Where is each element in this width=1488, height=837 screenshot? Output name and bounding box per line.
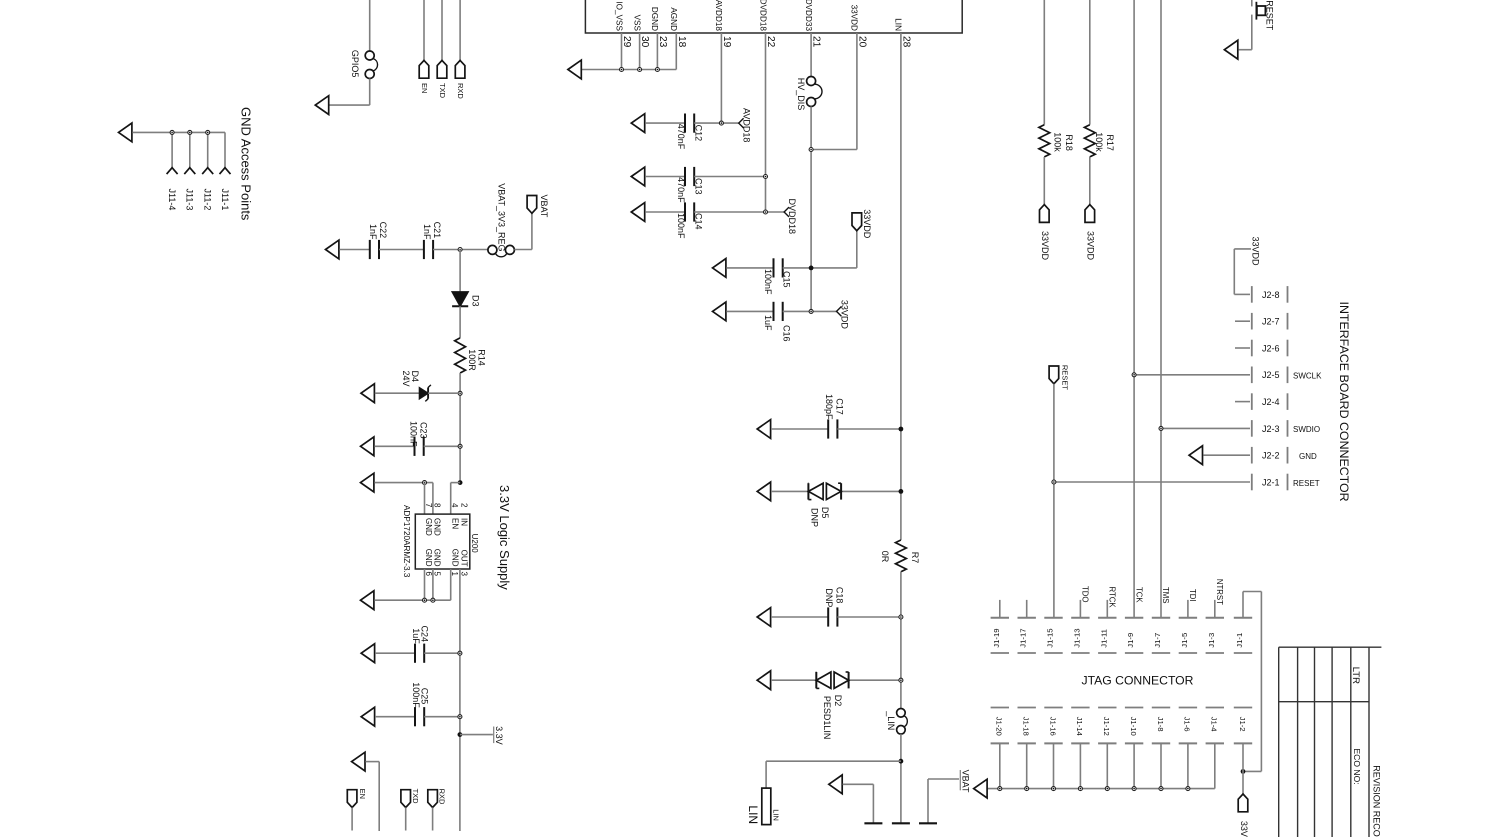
svg-text:GND: GND — [450, 549, 459, 567]
svg-text:J1-4: J1-4 — [1210, 717, 1219, 733]
svg-text:J11-2: J11-2 — [202, 189, 212, 211]
svg-text:33VDD: 33VDD — [1086, 231, 1096, 261]
svg-text:J1-2: J1-2 — [1238, 717, 1247, 732]
svg-text:D5: D5 — [820, 507, 830, 519]
svg-text:J1-19: J1-19 — [992, 628, 1001, 647]
svg-text:J1-17: J1-17 — [1019, 628, 1028, 647]
svg-text:23: 23 — [657, 36, 668, 48]
svg-text:2: 2 — [459, 503, 468, 508]
svg-text:1uF: 1uF — [763, 315, 773, 331]
svg-text:C15: C15 — [782, 271, 792, 288]
svg-text:VBAT_3V3_REG: VBAT_3V3_REG — [496, 183, 506, 251]
svg-text:20: 20 — [856, 36, 867, 48]
svg-text:33VDD: 33VDD — [1040, 231, 1050, 261]
svg-text:TXD: TXD — [411, 789, 420, 805]
svg-text:19: 19 — [721, 36, 732, 48]
svg-text:LIN: LIN — [746, 805, 760, 824]
svg-text:C21: C21 — [432, 222, 442, 239]
svg-text:J1-5: J1-5 — [1180, 633, 1189, 648]
svg-text:D2: D2 — [833, 695, 843, 707]
svg-text:100nF: 100nF — [676, 213, 686, 239]
svg-text:J1-12: J1-12 — [1102, 717, 1111, 736]
svg-text:470nF: 470nF — [676, 124, 686, 150]
svg-text:100k: 100k — [1052, 132, 1062, 152]
svg-text:D3: D3 — [470, 295, 480, 307]
svg-text:J1-11: J1-11 — [1099, 629, 1108, 648]
svg-text:DVDD33: DVDD33 — [804, 0, 813, 31]
svg-text:4: 4 — [450, 503, 459, 508]
svg-text:J11-4: J11-4 — [167, 189, 177, 211]
svg-text:18: 18 — [676, 36, 687, 48]
svg-text:30: 30 — [639, 36, 650, 48]
svg-text:C12: C12 — [693, 125, 703, 142]
svg-text:33VDD: 33VDD — [1239, 821, 1249, 837]
svg-text:J1-15: J1-15 — [1046, 628, 1055, 647]
svg-text:J2-7: J2-7 — [1262, 317, 1280, 327]
svg-text:GND: GND — [424, 518, 433, 536]
svg-text:C25: C25 — [420, 688, 430, 705]
svg-text:PESD1LIN: PESD1LIN — [822, 696, 832, 740]
svg-text:R7: R7 — [910, 552, 920, 564]
svg-text:J1-7: J1-7 — [1153, 633, 1162, 648]
svg-text:RXD: RXD — [438, 789, 447, 805]
svg-text:J1-9: J1-9 — [1126, 633, 1135, 648]
svg-text:TDI: TDI — [1188, 589, 1197, 602]
svg-text:8: 8 — [432, 503, 441, 508]
svg-text:22: 22 — [765, 36, 776, 48]
svg-text:_LIN: _LIN — [886, 710, 896, 730]
svg-text:TXD: TXD — [438, 83, 447, 99]
svg-text:100R: 100R — [467, 349, 477, 371]
svg-text:C18: C18 — [835, 587, 845, 604]
svg-text:RESET: RESET — [1293, 479, 1320, 488]
svg-text:J2-3: J2-3 — [1262, 424, 1280, 434]
svg-text:7: 7 — [424, 503, 433, 508]
svg-text:VBAT: VBAT — [961, 770, 971, 793]
svg-text:C13: C13 — [693, 178, 703, 195]
svg-text:AGND: AGND — [669, 7, 678, 31]
svg-text:DNP: DNP — [809, 508, 819, 527]
svg-text:R18: R18 — [1064, 134, 1074, 151]
svg-text:IN: IN — [460, 518, 469, 526]
svg-text:33VDD: 33VDD — [1251, 237, 1261, 267]
svg-text:J2-8: J2-8 — [1262, 290, 1280, 300]
svg-text:21: 21 — [811, 36, 822, 48]
svg-text:AVDD18: AVDD18 — [742, 108, 752, 142]
svg-text:C16: C16 — [782, 325, 792, 342]
svg-text:100k: 100k — [1094, 132, 1104, 152]
svg-text:DNP: DNP — [824, 588, 834, 607]
svg-text:R14: R14 — [476, 349, 486, 366]
svg-text:EN: EN — [358, 789, 367, 799]
svg-text:100nF: 100nF — [409, 421, 419, 447]
svg-text:VBAT: VBAT — [539, 195, 549, 218]
svg-text:RESET: RESET — [1061, 365, 1070, 390]
svg-text:TMS: TMS — [1161, 587, 1170, 603]
svg-text:GND: GND — [1299, 452, 1317, 461]
svg-text:J2-5: J2-5 — [1262, 370, 1280, 380]
svg-text:33VDD: 33VDD — [840, 300, 850, 330]
svg-text:100nF: 100nF — [411, 682, 421, 708]
svg-text:RESET: RESET — [1265, 0, 1275, 31]
svg-text:J11-3: J11-3 — [185, 189, 195, 211]
svg-text:VSS: VSS — [632, 15, 641, 32]
svg-text:33VDD: 33VDD — [862, 209, 872, 239]
svg-text:EN: EN — [450, 518, 459, 529]
svg-text:SWCLK: SWCLK — [1293, 372, 1322, 381]
svg-text:C24: C24 — [420, 626, 430, 643]
svg-text:3.3V: 3.3V — [494, 726, 504, 745]
svg-text:LTR: LTR — [1350, 667, 1361, 684]
svg-text:NTRST: NTRST — [1215, 579, 1224, 605]
svg-text:100nF: 100nF — [763, 269, 773, 295]
svg-text:J1-1: J1-1 — [1235, 633, 1244, 648]
svg-text:C22: C22 — [378, 222, 388, 239]
svg-text:LIN: LIN — [894, 18, 903, 31]
svg-text:C23: C23 — [419, 422, 429, 439]
svg-text:U200: U200 — [470, 534, 479, 554]
svg-text:INTERFACE BOARD CONNECTOR: INTERFACE BOARD CONNECTOR — [1337, 302, 1351, 502]
svg-text:J1-13: J1-13 — [1072, 628, 1081, 647]
svg-text:C14: C14 — [693, 213, 703, 230]
svg-text:J1-3: J1-3 — [1207, 633, 1216, 648]
svg-text:J1-20: J1-20 — [995, 717, 1004, 736]
svg-text:1uF: 1uF — [411, 628, 421, 644]
svg-text:J1-14: J1-14 — [1075, 717, 1084, 737]
svg-text:DGND: DGND — [650, 7, 659, 31]
svg-text:DVDD18: DVDD18 — [758, 0, 767, 31]
svg-text:GND Access Points: GND Access Points — [239, 107, 254, 221]
svg-text:J1-10: J1-10 — [1129, 717, 1138, 736]
svg-text:D4: D4 — [410, 371, 420, 383]
svg-text:J11-1: J11-1 — [220, 189, 230, 211]
svg-text:J2-6: J2-6 — [1262, 343, 1280, 353]
svg-text:J1-8: J1-8 — [1156, 717, 1165, 732]
svg-text:LIN: LIN — [771, 809, 780, 821]
svg-text:R17: R17 — [1105, 134, 1115, 151]
svg-text:AVDD18: AVDD18 — [714, 0, 723, 31]
svg-text:180pF: 180pF — [824, 394, 834, 420]
svg-text:0R: 0R — [880, 551, 890, 563]
svg-text:J2-2: J2-2 — [1262, 451, 1280, 461]
svg-text:ADP1720ARMZ-3.3: ADP1720ARMZ-3.3 — [402, 505, 411, 578]
svg-text:TDO: TDO — [1081, 586, 1090, 602]
svg-text:33VDD: 33VDD — [850, 5, 859, 31]
svg-text:GPIO5: GPIO5 — [350, 50, 360, 78]
svg-text:C17: C17 — [835, 398, 845, 415]
svg-text:RXD: RXD — [456, 83, 465, 99]
svg-text:REVISION RECORD: REVISION RECORD — [1371, 765, 1381, 837]
svg-text:ECO NO:: ECO NO: — [1352, 748, 1362, 784]
svg-text:EN: EN — [420, 83, 429, 93]
svg-text:J1-16: J1-16 — [1048, 717, 1057, 736]
svg-text:GND: GND — [424, 549, 433, 567]
svg-text:J2-1: J2-1 — [1262, 477, 1280, 487]
svg-text:JTAG CONNECTOR: JTAG CONNECTOR — [1082, 674, 1194, 688]
svg-text:J1-6: J1-6 — [1183, 717, 1192, 732]
svg-text:TCK: TCK — [1134, 587, 1143, 603]
svg-text:GND: GND — [433, 518, 442, 536]
svg-text:J1-18: J1-18 — [1022, 717, 1031, 736]
svg-text:OUT: OUT — [460, 550, 469, 567]
svg-text:3.3V Logic Supply: 3.3V Logic Supply — [497, 485, 512, 590]
svg-text:28: 28 — [900, 36, 911, 48]
svg-text:DVDD18: DVDD18 — [787, 199, 797, 235]
svg-text:24V: 24V — [401, 371, 411, 387]
svg-text:GND: GND — [433, 549, 442, 567]
svg-text:HV_DIS: HV_DIS — [796, 78, 806, 111]
svg-text:J2-4: J2-4 — [1262, 397, 1280, 407]
svg-text:IO_VSS: IO_VSS — [614, 1, 623, 31]
svg-text:1nF: 1nF — [368, 224, 378, 240]
svg-text:470nF: 470nF — [676, 177, 686, 203]
svg-text:SWDIO: SWDIO — [1293, 425, 1320, 434]
svg-text:RTCK: RTCK — [1107, 587, 1116, 609]
svg-text:29: 29 — [621, 36, 632, 48]
svg-text:1nF: 1nF — [422, 224, 432, 240]
